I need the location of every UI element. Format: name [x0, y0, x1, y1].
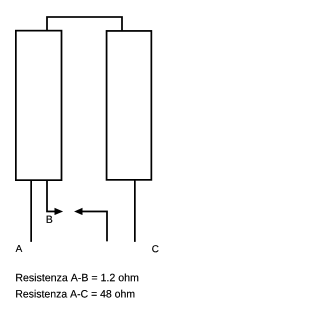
winding L1 (left, terminals A-B): [16, 31, 62, 181]
wire pointer shaft: [82, 211, 107, 241]
label C: [152, 245, 158, 252]
arrowhead tap B: [55, 208, 63, 215]
wire tap B: [47, 180, 55, 211]
label B: [47, 216, 53, 223]
caption resistance A-B: [16, 273, 138, 281]
label A: [16, 245, 23, 252]
caption resistance A-C: [16, 290, 134, 298]
wire terminal C: [134, 180, 136, 242]
winding L2 (right, to terminal C): [107, 31, 152, 180]
wire top link between windings: [47, 17, 122, 31]
arrowhead pointer to tap: [74, 208, 82, 215]
wire terminal A: [30, 180, 32, 241]
